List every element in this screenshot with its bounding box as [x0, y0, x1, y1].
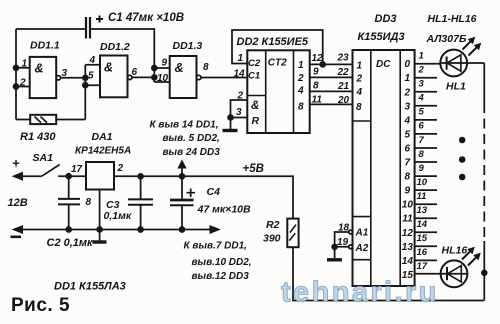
svg-text:DA1: DA1 — [92, 131, 113, 143]
svg-text:23: 23 — [337, 53, 350, 64]
watermark tehnari.ru — [281, 277, 439, 309]
svg-text:К выв 14 DD1,: К выв 14 DD1, — [150, 120, 219, 131]
svg-text:1: 1 — [238, 53, 244, 64]
junction dot HL16 rail — [482, 270, 487, 275]
svg-text:17: 17 — [71, 164, 83, 175]
svg-text:14: 14 — [234, 69, 246, 80]
ground symbol A1 A2 — [327, 258, 342, 261]
svg-text:6: 6 — [419, 121, 425, 132]
svg-text:DD1.2: DD1.2 — [100, 41, 130, 53]
svg-text:6: 6 — [405, 144, 411, 155]
DA1 ground lead and symbol — [93, 190, 107, 243]
svg-text:C2: C2 — [248, 58, 261, 69]
svg-text:4: 4 — [404, 115, 411, 126]
svg-text:14: 14 — [402, 256, 414, 267]
wire C1 to node column — [90, 29, 154, 82]
right rail solid bottom — [483, 241, 485, 301]
svg-text:13: 13 — [402, 242, 414, 253]
svg-text:11: 11 — [402, 214, 413, 225]
junction dots ground rail — [66, 227, 184, 232]
svg-text:11: 11 — [417, 191, 427, 202]
svg-text:6: 6 — [132, 67, 138, 78]
wire DD2 pin9 to DD3 pin22 — [310, 67, 353, 79]
svg-text:+: + — [12, 156, 20, 171]
svg-text:DD1 К155ЛА3: DD1 К155ЛА3 — [54, 281, 126, 293]
svg-text:12: 12 — [312, 53, 324, 64]
wire pin2 DD1.1 — [16, 86, 30, 88]
svg-text:0,1мк: 0,1мк — [104, 210, 132, 222]
counter DD2 K155ИЕ5 block — [247, 50, 309, 133]
gate DD1.3 — [157, 40, 209, 98]
svg-text:13: 13 — [417, 205, 428, 216]
svg-text:&: & — [104, 61, 113, 75]
svg-text:выв.12 DD3: выв.12 DD3 — [192, 271, 250, 282]
wire DD2 pin8 to DD3 pin21 — [310, 81, 353, 93]
regulator DA1 КР142ЕН5А — [71, 131, 131, 208]
svg-text:выв 24 DD3: выв 24 DD3 — [163, 147, 221, 158]
svg-text:4: 4 — [356, 87, 363, 98]
svg-text:7: 7 — [405, 158, 411, 169]
svg-text:9: 9 — [405, 186, 411, 197]
svg-text:8: 8 — [203, 62, 209, 73]
gate DD1.1 — [19, 40, 68, 99]
svg-text:2: 2 — [404, 87, 411, 98]
svg-text:HL1: HL1 — [446, 81, 466, 93]
junction dots node x85 — [83, 75, 88, 87]
svg-text:9: 9 — [419, 163, 425, 174]
svg-text:DD3: DD3 — [375, 13, 397, 25]
svg-text:2: 2 — [237, 91, 244, 102]
svg-text:14: 14 — [417, 219, 428, 230]
right rail solid top — [483, 63, 485, 103]
svg-text:Рис. 5: Рис. 5 — [11, 295, 70, 316]
svg-text:10: 10 — [157, 73, 169, 84]
svg-text:1: 1 — [298, 60, 304, 71]
ground rail 12V minus — [11, 226, 220, 237]
12V plus input arrow — [12, 156, 42, 181]
capacitor C4 47мк×10В — [170, 176, 251, 229]
decoder DD3 K155ИД3 block — [353, 13, 415, 286]
svg-text:tehnari.ru: tehnari.ru — [281, 277, 439, 309]
svg-text:19: 19 — [337, 237, 349, 248]
svg-text:2: 2 — [117, 163, 124, 174]
capacitor C1 47мк×10В — [86, 12, 184, 39]
svg-text:8: 8 — [313, 81, 319, 92]
junction dots node x154 — [152, 66, 157, 80]
wire DD2 pin12 to DD3 pin23 — [310, 53, 353, 67]
svg-text:17: 17 — [417, 261, 428, 272]
DD2 label and feedback loop pin12 to pin1 — [232, 30, 323, 80]
svg-text:5: 5 — [419, 107, 425, 118]
svg-text:8: 8 — [86, 197, 92, 208]
svg-text:18: 18 — [338, 223, 350, 234]
DD3 strobe inputs A1 A2 pins 18 19 — [332, 223, 369, 259]
svg-text:2: 2 — [297, 73, 304, 84]
svg-text:3: 3 — [236, 107, 242, 118]
node column x85 with pin4/pin5 jog — [85, 65, 100, 120]
svg-text:C1: C1 — [248, 71, 260, 82]
svg-text:DC: DC — [376, 59, 391, 70]
svg-text:C2 0,1мк: C2 0,1мк — [47, 237, 95, 249]
svg-text:7: 7 — [419, 135, 425, 146]
svg-text:8: 8 — [405, 172, 411, 183]
svg-text:HL1-HL16: HL1-HL16 — [428, 13, 477, 25]
svg-text:К155ИД3: К155ИД3 — [358, 31, 405, 43]
capacitor C2 0,1мк — [47, 176, 95, 249]
svg-text:DD1.3: DD1.3 — [173, 40, 203, 52]
svg-text:CT2: CT2 — [268, 58, 287, 69]
svg-text:A2: A2 — [355, 243, 369, 254]
svg-text:21: 21 — [337, 81, 350, 92]
right rail dashed middle — [483, 103, 485, 241]
dots of omitted LEDs — [460, 138, 465, 180]
svg-text:16: 16 — [417, 247, 428, 258]
svg-text:47 мк×10В: 47 мк×10В — [197, 204, 251, 216]
DD3 output pin stubs — [415, 64, 441, 274]
svg-text:11: 11 — [312, 95, 323, 106]
svg-text:К выв.7 DD1,: К выв.7 DD1, — [184, 241, 247, 252]
svg-text:C4: C4 — [207, 186, 221, 198]
capacitor C3 0,1мк — [104, 174, 154, 230]
gate DD1.2 — [88, 41, 138, 97]
svg-text:R1 430: R1 430 — [20, 131, 56, 143]
wire R2 top to +5V line — [114, 176, 293, 218]
svg-text:8: 8 — [419, 149, 425, 160]
arrow up to Vcc pins — [178, 161, 186, 179]
svg-text:10: 10 — [417, 177, 428, 188]
bottom LED return rail to R2 — [293, 247, 484, 300]
text to ground pins — [184, 241, 252, 283]
label +5В — [243, 163, 264, 175]
svg-text:2: 2 — [356, 74, 363, 85]
resistor R2 390 — [263, 219, 299, 248]
svg-text:3: 3 — [405, 101, 411, 112]
svg-text:390: 390 — [263, 233, 281, 245]
svg-text:2: 2 — [418, 65, 425, 76]
svg-text:C1 47мк ×10В: C1 47мк ×10В — [108, 12, 184, 24]
wire top from left rail to C1 — [16, 28, 85, 30]
svg-text:&: & — [175, 61, 184, 75]
svg-text:9: 9 — [313, 67, 319, 78]
svg-text:R2: R2 — [266, 219, 280, 231]
svg-text:3: 3 — [419, 79, 425, 90]
svg-text:1: 1 — [357, 61, 363, 72]
svg-text:DD2 К155ИЕ5: DD2 К155ИЕ5 — [237, 36, 309, 48]
svg-text:5: 5 — [405, 129, 411, 140]
svg-text:4: 4 — [418, 93, 425, 104]
svg-text:10: 10 — [402, 200, 414, 211]
svg-text:5: 5 — [88, 71, 94, 82]
label 12В — [8, 197, 28, 209]
svg-text:9: 9 — [162, 58, 168, 69]
DD3 output labels 0-15 — [402, 59, 414, 281]
svg-text:1: 1 — [419, 51, 424, 62]
svg-text:HL16: HL16 — [442, 245, 468, 257]
left rail — [15, 29, 17, 120]
svg-text:1: 1 — [405, 73, 411, 84]
DD3 output pin numbers — [417, 51, 428, 273]
wire output6 DD1.2 to node — [132, 76, 154, 78]
LED HL16 — [440, 245, 480, 288]
svg-text:20: 20 — [337, 95, 350, 106]
label HL1-HL16 АЛ307Б — [426, 13, 477, 45]
wire output8 DD1.3 to DD2 pin14 — [201, 77, 247, 79]
svg-text:22: 22 — [337, 67, 350, 78]
wire DD2 pin11 to DD3 pin20 — [310, 95, 353, 107]
ground symbol DD2 R — [223, 129, 238, 132]
text to Vcc pins — [150, 120, 221, 159]
svg-text:+5В: +5В — [243, 163, 264, 175]
wire pin1 DD1.1 — [16, 67, 30, 69]
LED HL1 — [440, 38, 480, 93]
svg-text:4: 4 — [297, 86, 304, 97]
svg-text:DD1.1: DD1.1 — [30, 40, 60, 52]
svg-text:&: & — [35, 62, 44, 76]
svg-text:АЛ307Б: АЛ307Б — [426, 33, 467, 45]
svg-text:12: 12 — [402, 228, 414, 239]
svg-text:8: 8 — [356, 102, 362, 113]
wire HL1 to right rail — [467, 62, 484, 64]
svg-text:15: 15 — [417, 233, 428, 244]
label DD1 К155ЛА3 — [54, 281, 126, 293]
wire output3 DD1.1 to node — [61, 77, 86, 79]
svg-text:КР142ЕН5А: КР142ЕН5А — [75, 146, 131, 157]
DD2 pins 2 3 jog to ground — [228, 91, 247, 130]
caption Рис. 5 — [11, 295, 70, 316]
switch SA1 — [33, 152, 87, 179]
junction dots left rail — [14, 65, 19, 89]
svg-text:&: & — [251, 100, 259, 112]
svg-text:R: R — [252, 115, 260, 127]
wires pin9 pin10 DD1.3 — [154, 68, 169, 82]
svg-text:выв. 5 DD2,: выв. 5 DD2, — [163, 133, 220, 144]
resistor R1 430 — [16, 115, 85, 143]
svg-text:A1: A1 — [355, 228, 369, 239]
svg-text:SA1: SA1 — [33, 152, 54, 164]
svg-text:8: 8 — [298, 102, 304, 113]
svg-text:выв.10 DD2,: выв.10 DD2, — [192, 257, 252, 268]
svg-text:12В: 12В — [8, 197, 28, 209]
svg-text:4: 4 — [89, 55, 96, 66]
svg-text:0: 0 — [405, 59, 411, 70]
